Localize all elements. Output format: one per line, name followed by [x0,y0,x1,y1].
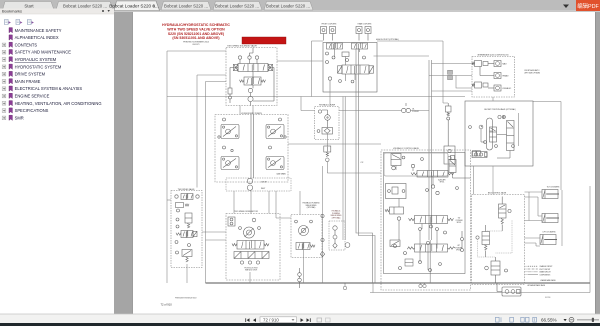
page layout icon 1 [496,317,502,322]
control valve solid body outline [384,153,466,274]
tilt cylinder spool [409,216,454,224]
bucket valve internal wires [481,129,510,158]
svg-text:SPOOL: SPOOL [440,182,445,184]
svg-text:LIFT CYLINDERS: LIFT CYLINDERS [543,232,556,234]
wire: secondary left vertical [205,82,207,284]
page layout icon 2 [510,317,514,322]
svg-text:SMR: SMR [15,115,24,120]
high flow port circles [326,52,366,83]
wire: single speed motor to trunk [303,250,305,284]
bookmark row 1: MAINTENANCE SAFETY [9,28,62,33]
relief valve bottom [176,250,193,263]
hydrostatic pumps dashed enclosure [215,115,288,183]
svg-text:LIFT: LIFT [457,245,460,247]
bookmark row 8: MAIN FRAME [2,79,40,84]
label AUXILIARY SPOOL [438,178,445,183]
bottom area circles [394,241,442,271]
svg-text:SPECIFICATIONS: SPECIFICATIONS [15,108,49,113]
hydrostatic pump unit 4 (rear right) [266,157,284,170]
single speed drive motor enclosure [291,215,322,258]
two speed solenoid valve dashed enclosure [226,48,277,106]
hydrostatic pump unit 2 (front right) [266,125,284,139]
wire: mid horizontal y144 [288,143,381,145]
prev-page button [253,318,256,322]
oil cooler symbol [402,103,411,113]
hydrostatic pump unit 3 (rear left) [221,157,239,170]
red PDF button [576,0,600,11]
svg-text:HIGH FLOW KIT (OPTIONAL): HIGH FLOW KIT (OPTIONAL) [376,38,399,41]
charge relief valve below pump [324,146,331,162]
port circle [177,209,180,212]
double trunk line right (main pressure) [429,60,432,240]
port circle below trunk [343,283,347,290]
svg-text:S220 (SN 528211001 AND ABOVE): S220 (SN 528211001 AND ABOVE) [168,32,224,36]
wires trunk to coupler block [429,64,472,89]
wire: motor box left ports [202,232,226,240]
wire bucket valve to BICS second [492,166,494,195]
port circle on service line 1 [321,214,324,217]
sidebar panel [0,12,114,314]
gauge circle G2 [248,96,253,101]
svg-text:INLET: INLET [261,188,265,190]
svg-text:HYDRAULIC/HYDROSTATIC SCHEMATI: HYDRAULIC/HYDROSTATIC SCHEMATIC [162,23,230,27]
svg-text:Start: Start [24,4,34,9]
first-page button [246,318,250,322]
svg-text:BUCKET POSITION VALVE (OPTIONA: BUCKET POSITION VALVE (OPTIONAL) [484,108,516,111]
svg-text:TWO SPEED SOLENOID VALVE: TWO SPEED SOLENOID VALVE [227,44,257,47]
double trunk line left (charge) [356,49,375,283]
zoom out button [569,317,574,322]
svg-text:HEATING, VENTILATION, AIR COND: HEATING, VENTILATION, AIR CONDITIONING [15,101,102,106]
svg-text:HYDRAULIC PUMP: HYDRAULIC PUMP [319,104,336,107]
motor side ports [239,227,242,230]
svg-text:CYLINDER: CYLINDER [455,220,462,222]
svg-text:6901371: 6901371 [193,44,200,46]
BICS cartridge valve 2 [476,225,490,257]
charge filter circles [333,226,350,248]
page layout icon 3 [521,317,529,322]
coupler female [480,67,501,79]
svg-text:SAFETY AND MAINTENANCE: SAFETY AND MAINTENANCE [15,50,72,55]
check plugs on coupler line [448,70,453,74]
svg-text:72 of 910: 72 of 910 [161,303,173,307]
wire legend connects [525,266,529,274]
lower port circles [419,225,447,234]
label LIFT SPOOL [455,245,462,251]
bookmark row 10: ENGINE SERVICE [2,93,49,98]
single speed motor symbol [299,226,309,236]
high flow valve A [327,43,343,49]
svg-text:ENGINE SERVICE: ENGINE SERVICE [15,94,50,99]
bucket position valve enclosure [465,101,533,166]
tab Bobcat Loader S220 #3 [161,2,211,11]
label FRONT AUXILIARY [524,69,540,75]
two speed shuttle valve [181,194,193,200]
quick coupler block dashed enclosure [472,57,515,98]
wire: y91 horizontal to coupler block [432,90,473,92]
svg-text:BICS CONTROL VALVE: BICS CONTROL VALVE [488,191,507,194]
svg-text:ALPHABETICAL INDEX: ALPHABETICAL INDEX [15,35,59,40]
pilot rect [176,203,190,208]
svg-text:72 / 910: 72 / 910 [263,317,279,322]
lift cylinder spool lower [407,244,455,252]
BICS internal dashed wires [478,220,513,257]
high flow valve B [352,43,368,49]
svg-text:MAIN FRAME: MAIN FRAME [15,79,41,84]
inter-valve port blocks [473,151,481,157]
tab bar background [0,0,600,12]
auxiliary spool [411,171,454,178]
single speed motor ports [295,220,298,223]
small relief on left wall [228,85,232,103]
bookmark row 2: ALPHABETICAL INDEX [9,35,59,40]
wire frame to two speed valve [167,199,171,201]
sidebar toolbar icons [5,20,34,25]
port circles left [176,218,179,221]
red highlight box [242,37,286,44]
svg-text:HYDRAULIC SYSTEM: HYDRAULIC SYSTEM [15,57,57,62]
gear pump circle [318,110,330,128]
dark status strip [0,323,600,326]
port circles left of BICS [461,231,464,252]
hydrostatic pump unit 1 (front left) [221,125,239,139]
diverter spool S1 [391,154,401,170]
bookmark row 7: DRIVE SYSTEM [2,71,45,76]
vent circles [498,115,506,118]
two speed pilot valve [240,77,266,85]
two speed valve dashed enclosure [171,191,202,268]
bookmark row 12: SPECIFICATIONS [2,108,48,113]
lift check spool [385,207,404,220]
legend line samples and labels [528,265,553,276]
wires BICS to tilt cylinders [525,192,543,221]
high flow pilot rect [342,52,349,57]
svg-text:×: × [153,4,156,10]
last-page button [307,318,311,322]
wire: solenoid box to pumps [240,106,253,115]
drain return line y292.5 [370,283,590,293]
schematic title (red) [162,23,230,46]
tab Bobcat Loader S220 #5 [264,2,313,11]
svg-text:TILT: TILT [458,218,461,220]
charge pump circle 2 [247,185,252,190]
cartridge valve [185,213,192,228]
wire: left outer frame vertical [166,51,168,283]
svg-text:PRINTED NOVEMBER 2004: PRINTED NOVEMBER 2004 [183,41,210,43]
svg-text:Bobcat Loader S220 ...: Bobcat Loader S220 ... [215,4,259,9]
pilot sub box [386,184,407,199]
svg-text:S-21760: S-21760 [545,297,550,299]
svg-text:COOLER: COOLER [412,111,420,113]
tilt cylinder 2 [542,214,559,223]
wire: top bus y41 [377,41,448,103]
motor shift valve [232,241,269,250]
high flow internal wires [330,43,360,91]
svg-text:编辑PDF: 编辑PDF [577,2,599,10]
bookmark row 6: HYDROSTATIC SYSTEM [2,64,62,69]
svg-text:OIL: OIL [412,109,415,111]
svg-text:TILT CYLINDERS: TILT CYLINDERS [547,187,560,189]
gauge circle with needle [479,125,483,129]
wire: relief to control valve [327,162,381,173]
tilt cylinder 1 [542,190,559,199]
front aux relief valve [446,103,452,146]
svg-text:COMPONENTS: COMPONENTS [540,274,551,276]
bookmark row 4: SAFETY AND MAINTENANCE [2,50,71,55]
svg-text:FRONT COUPLERS: FRONT COUPLERS [322,24,337,26]
bucket valve capsule [487,118,493,150]
lift cylinder [540,235,557,245]
vertical service line x322.5 [322,166,324,283]
bookmark row 13: SMR [2,115,24,120]
hydraulic pump dashed enclosure [315,107,340,140]
port circle [175,241,178,244]
wire: top-left frame horizontal [167,50,226,52]
two speed valve top circle A [175,195,178,198]
front coupler pair [321,27,336,41]
wire: two speed valve down to trunk [186,264,188,283]
aux sub box [444,146,455,164]
high flow main spool [338,65,374,74]
tab Bobcat Loader S220 #1 [56,2,113,11]
motor base plate hatched [234,252,269,259]
svg-text:SINGLE SPEED: SINGLE SPEED [305,205,317,207]
wire: motor box to trunk [249,272,251,283]
wire: solenoid box to high flow [277,60,323,62]
next-page button [301,318,304,322]
BICS cartridge valve 1 [499,197,512,232]
coupler male [472,61,501,67]
solenoid directional valve [234,64,273,72]
svg-text:Bookmarks: Bookmarks [2,9,22,14]
svg-text:Bobcat Loader S220 ...: Bobcat Loader S220 ... [164,4,208,9]
internal wires of solenoid valve block [230,68,274,106]
svg-text:SPOOL: SPOOL [457,222,462,224]
single speed motor valve [296,243,315,250]
charge pressure double line x343 [343,97,345,241]
wire: bucket valve to cylinders bus [533,102,561,191]
lift arm bypass valve [497,283,521,296]
label SINGLE SPEED PLUMBING (OPTIONAL) [330,210,342,220]
wire: pump to filter drop [327,134,329,146]
bucket valve bottom manifold [472,152,487,158]
svg-text:OUTLET: OUTLET [261,182,267,184]
drive motor symbol [244,227,255,238]
tab Bobcat Loader S220 #2 (active) [109,1,159,11]
port circles on trunk [298,268,302,288]
svg-text:DRIVE SYSTEM: DRIVE SYSTEM [15,72,46,77]
label OIL COOLER [412,109,420,113]
svg-text:SINGLE SPEED: SINGLE SPEED [330,215,342,217]
svg-text:PILOT CIRCUIT: PILOT CIRCUIT [540,269,551,271]
wire: left vertical x197 [197,75,226,188]
label SINGLE SPEED (OPTIONAL) [303,202,321,210]
drain orifice block [405,259,413,266]
speed sensor box [228,217,235,226]
control valve inner body [384,153,448,176]
view history icons (grayed) [317,318,322,322]
svg-text:PLUMBING: PLUMBING [332,213,341,215]
base port circles [240,261,259,264]
control valve internal wires [396,166,471,271]
wire coupler block to bucket valve [492,97,494,101]
gauge circles above solenoid valve [238,48,258,64]
wires BICS to lift cylinder [525,238,541,246]
svg-text:Bobcat Loader S220 ...: Bobcat Loader S220 ... [63,4,107,9]
zoom slider [577,318,599,322]
wire bucket valve down to BICS [474,113,519,195]
svg-text:MAINTENANCE SAFETY: MAINTENANCE SAFETY [15,28,62,33]
gauge circle G1 [248,88,252,92]
dropdown arrow [563,5,569,9]
bookmark row 3: CONTENTS [2,42,37,47]
bookmark list [2,28,101,121]
wire: vertical x300 pumps to motor [299,191,301,215]
charge pump circle 1 [247,178,252,183]
BICS cartridge valve 3 [485,257,508,283]
pump port circles [218,118,286,152]
charge pump sub-box dashed [226,178,291,191]
sidebar header [0,9,114,15]
port circle top [252,218,256,222]
wire: bottom trunk line [206,282,591,284]
label TILT CYLINDER SPOOL [455,218,462,224]
bookmark row 9: ELECTRICAL SYSTEM and ANALYSIS [2,86,82,91]
bucket valve spool [490,127,497,142]
port circle on service line 2 [321,238,324,241]
pump drive shaft double line [251,115,254,179]
wire: high flow to main trunk [374,55,430,57]
wires pumps to motors [234,190,291,218]
solenoid valve lower [176,231,197,238]
relief spool S2 [449,156,456,173]
svg-text:CONTENTS: CONTENTS [15,42,38,47]
wire: right frame vertical [589,186,591,283]
port circles upper [402,156,423,168]
filter [317,128,332,135]
svg-text:(SN 530511001 AND ABOVE): (SN 530511001 AND ABOVE) [172,36,219,40]
charge filter dashed box [329,221,345,250]
misc port circles [469,126,515,148]
svg-text:Bobcat Loader S220 ...: Bobcat Loader S220 ... [266,4,310,9]
svg-text:WITH TWO SPEED VALVE OPTION: WITH TWO SPEED VALVE OPTION [167,27,225,31]
tab Start [3,2,55,11]
zoom dropdown arrow [564,319,567,321]
wire: pump outlet to cooler line [339,110,429,112]
two speed drive motor dashed enclosure [226,214,280,281]
svg-text:HYDROSTATIC SYSTEM: HYDROSTATIC SYSTEM [15,64,62,69]
check valve diamond on service line [320,252,324,257]
bookmark row 5: HYDRAULIC SYSTEM [2,57,57,62]
rear coupler pair [356,27,371,41]
two speed valve top circle B [196,195,199,198]
wire: right vertical x562 [561,190,563,246]
svg-text:Bobcat Loader S220 6...: Bobcat Loader S220 6... [109,4,159,9]
svg-text:66.55%: 66.55% [541,318,557,323]
hydraulic control valve dashed enclosure [381,150,471,290]
lower check valve [390,240,400,247]
page layout icon 4 [533,317,537,322]
high flow valve block enclosure [323,43,377,93]
bucket valve tall spool [507,121,515,151]
svg-text:TWO SPEED DRIVE MOTOR: TWO SPEED DRIVE MOTOR [234,211,259,213]
page number box 72/910 [260,317,297,323]
twin gauge ports on trunk [419,283,426,288]
mid port circles [426,185,459,195]
wire: pump left port [301,97,315,111]
toolbar [0,314,600,323]
coupler case drain [472,82,501,91]
tab Bobcat Loader S220 #4 [213,2,262,11]
wire: high flow down to pump [329,91,331,107]
wire: long horizontal bus y96.5 [167,96,465,98]
BICS control valve dashed enclosure [472,195,525,285]
bookmark row 11: HEATING, VENTILATION, AIR CONDITIONING [2,101,101,106]
wire: vertical x311.5 [312,41,324,97]
svg-text:ELECTRICAL SYSTEM & ANALYSIS: ELECTRICAL SYSTEM & ANALYSIS [15,86,83,91]
